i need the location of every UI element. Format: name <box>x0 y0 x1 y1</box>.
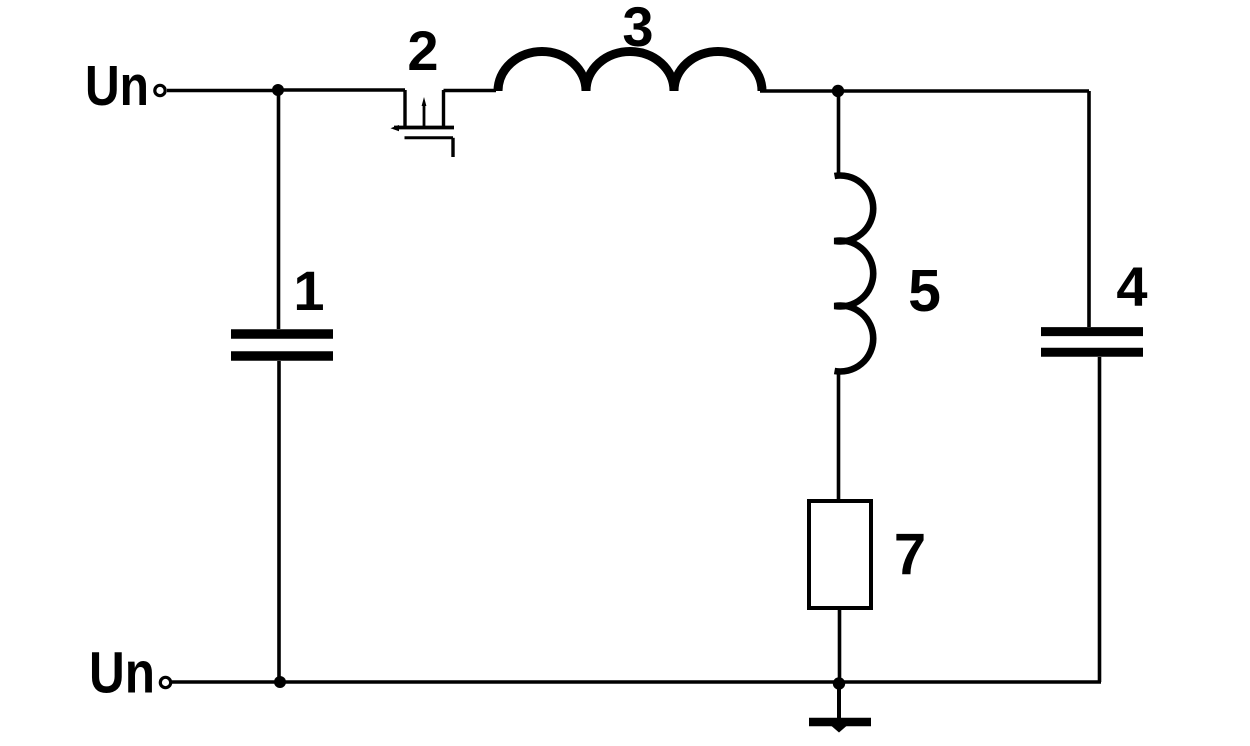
svg-text:7: 7 <box>894 522 926 587</box>
wire capacitor 1 to bottom rail <box>277 361 281 682</box>
transistor 2 drain lead <box>403 90 406 127</box>
capacitor 1 top plate <box>231 329 333 339</box>
svg-text:4: 4 <box>1116 255 1147 318</box>
node C junction (ground node) <box>833 677 845 689</box>
terminal bottom-left <box>160 677 170 687</box>
svg-text:Un: Un <box>85 54 149 117</box>
transistor 2 channel left arrowhead <box>391 125 400 131</box>
wire inductor 5 to resistor 7 <box>837 369 841 501</box>
transistor 2 substrate arrow <box>423 104 426 126</box>
node D junction (bottom left) <box>274 676 286 688</box>
node A junction <box>272 84 284 96</box>
svg-text:2: 2 <box>407 19 438 82</box>
capacitor 1 bottom plate <box>231 351 333 361</box>
wire transistor source to inductor 3 <box>444 89 497 93</box>
capacitor 4 top plate <box>1041 327 1143 336</box>
node B junction <box>832 85 844 97</box>
wire node A to transistor drain <box>278 88 405 92</box>
svg-text:1: 1 <box>293 259 324 322</box>
ground tip <box>832 726 847 733</box>
wire right corner down to capacitor 4 <box>1087 91 1091 327</box>
ground stem <box>837 684 841 724</box>
capacitor 4 bottom plate <box>1041 348 1143 357</box>
wire node A down to capacitor 1 <box>277 90 281 329</box>
svg-text:Un: Un <box>89 641 155 706</box>
wire node B down to inductor 5 <box>837 91 841 177</box>
inductor 5 <box>835 176 874 372</box>
wire node B to right corner <box>838 89 1089 93</box>
wire inductor 3 to node B <box>760 89 838 93</box>
ground bar <box>809 718 871 727</box>
bottom rail wire <box>172 680 1101 684</box>
wire top from terminal to node A <box>167 89 278 93</box>
transistor 2 gate plate <box>405 136 454 139</box>
inductor 3 <box>498 52 762 92</box>
svg-text:5: 5 <box>908 258 941 324</box>
wire capacitor 4 to bottom rail <box>1098 357 1102 682</box>
terminal top-left <box>155 85 165 95</box>
transistor 2 source lead <box>442 90 445 127</box>
wire resistor 7 to ground node <box>838 608 842 684</box>
transistor 2 channel bar <box>394 126 454 130</box>
transistor 2 gate lead <box>451 138 454 157</box>
resistor 7 <box>809 501 871 608</box>
